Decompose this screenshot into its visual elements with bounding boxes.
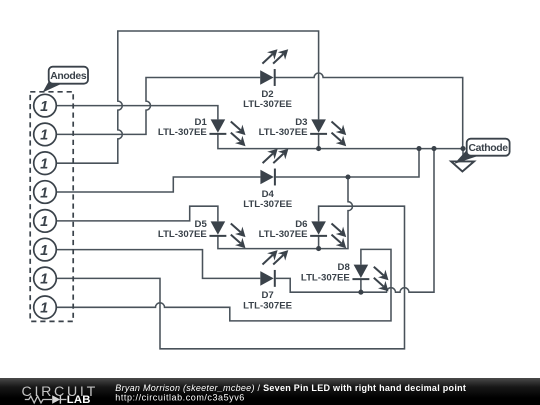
wire net P7 bottom run up to D6 anode: [56, 206, 404, 349]
svg-text:1: 1: [40, 157, 48, 173]
LED D4: [260, 149, 288, 186]
wire D6 cathode stub: [318, 236, 320, 249]
LED D7: [260, 250, 288, 287]
pin 4: [34, 181, 57, 204]
svg-text:LTL-307EE: LTL-307EE: [243, 199, 292, 210]
svg-text:http://circuitlab.com/c3a5yv6: http://circuitlab.com/c3a5yv6: [115, 393, 245, 403]
svg-text:1: 1: [40, 99, 48, 115]
node symbol cathode terminal: [451, 161, 474, 171]
wire net P2 riser to D2 anode (hops P1 wire): [56, 78, 260, 135]
wire D2 cathode run to cathode node (hops D3 riser): [275, 73, 463, 149]
junction on bus at D3 cathode: [316, 146, 321, 151]
svg-text:1: 1: [40, 128, 48, 144]
svg-text:1: 1: [40, 301, 48, 317]
wire cathode node stub: [462, 149, 464, 162]
LED D6: [310, 221, 346, 248]
wire D3 cathode stub: [318, 134, 320, 149]
junction at cathode node: [460, 146, 465, 151]
svg-text:1: 1: [40, 243, 48, 259]
pin 7: [34, 267, 57, 290]
svg-text:LTL-307EE: LTL-307EE: [301, 272, 350, 283]
svg-text:LTL-307EE: LTL-307EE: [259, 229, 308, 240]
wire net P4 to D4 anode: [56, 177, 260, 192]
junction on bus at D7 cathode riser: [431, 146, 436, 151]
svg-text:LTL-307EE: LTL-307EE: [243, 99, 292, 110]
svg-text:LTL-307EE: LTL-307EE: [158, 127, 207, 138]
wire D5 cathode row and riser to D4 cathode (hops D6 feed): [218, 177, 353, 249]
LED D2: [260, 49, 288, 86]
svg-text:1: 1: [40, 214, 48, 230]
svg-text:1: 1: [40, 272, 48, 288]
wire net P8 to D8 anode (hops P7 riser): [56, 249, 391, 321]
wire D4 cathode run up to bus: [276, 149, 419, 177]
svg-text:Bryan Morrison (skeeter_mcbee): Bryan Morrison (skeeter_mcbee) / Seven P…: [115, 383, 466, 393]
pin 3: [34, 152, 57, 175]
wire net P5 to D5 anode: [56, 206, 218, 221]
LED D1: [209, 119, 245, 146]
LED D5: [209, 221, 245, 248]
junction on bus at D4 cathode riser: [416, 146, 421, 151]
junction D6 cathode on D5 row: [316, 246, 321, 251]
connector dashed box Anodes: [30, 92, 73, 322]
wire net P3 riser to top rail to D3 anode (hops P2 and P1 wires): [56, 31, 318, 163]
node label Anodes: [43, 67, 89, 93]
svg-text:LTL-307EE: LTL-307EE: [243, 301, 292, 312]
pin 8: [34, 296, 57, 319]
junction D5 row at D4 cathode riser: [345, 174, 350, 179]
wire net P1 to D1 anode: [56, 106, 218, 120]
node label Cathode: [454, 139, 510, 164]
wire D1 cathode and cathode bus: [218, 134, 463, 149]
svg-text:Anodes: Anodes: [50, 71, 87, 82]
svg-text:1: 1: [40, 185, 48, 201]
pin 5: [34, 210, 57, 233]
pin 1: [34, 94, 57, 117]
svg-text:LAB: LAB: [67, 394, 91, 405]
wire net P6 to D7 anode: [56, 250, 260, 279]
pin 2: [34, 123, 57, 146]
svg-text:LTL-307EE: LTL-307EE: [259, 127, 308, 138]
wire D7 cathode run up to bus (hops P8 riser and D6 feed riser): [276, 149, 434, 293]
footer logo CIRCUIT LAB: [22, 384, 98, 405]
wire D8 cathode stub: [360, 279, 362, 292]
LED D8: [352, 265, 388, 292]
svg-text:LTL-307EE: LTL-307EE: [158, 229, 207, 240]
pin 6: [34, 238, 57, 261]
LED D3: [310, 119, 346, 146]
svg-text:Cathode: Cathode: [469, 143, 509, 154]
junction D8 cathode on D7 row: [358, 290, 363, 295]
